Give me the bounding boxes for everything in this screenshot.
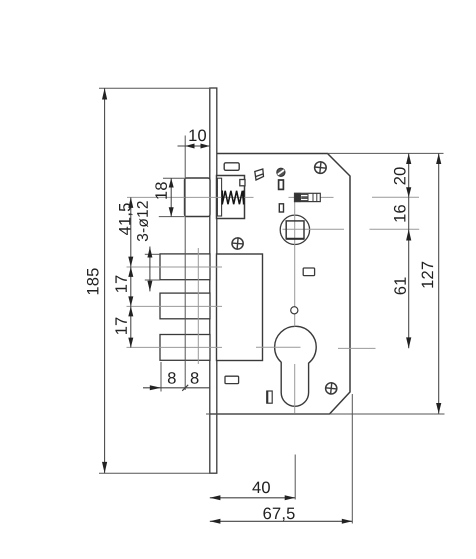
centerline bolt2 (127, 305, 223, 307)
hole slot top (224, 163, 239, 171)
centerline spindle axis (283, 228, 420, 230)
dimension 20-16-61 line (406, 153, 411, 348)
stud rect lower (279, 204, 283, 212)
hole slot mid (303, 268, 314, 276)
dimension 17 upper line (128, 267, 133, 307)
label 8 (168, 372, 176, 384)
extension line hole1 bottom (145, 279, 160, 281)
dimension 18 line (169, 178, 174, 216)
extension line latch face vertical (184, 136, 186, 391)
label 8 (191, 372, 199, 384)
label 17 (115, 318, 126, 334)
extension line top of case (328, 152, 444, 154)
dimension 17 lower line (128, 306, 133, 347)
extension line case right vertical 67.5 (351, 394, 353, 524)
label 20 (394, 167, 406, 184)
spindle hub circle (280, 215, 309, 244)
bolt hole 1 (160, 254, 210, 280)
extension line bottom of faceplate (99, 472, 211, 474)
euro cylinder hole (275, 326, 317, 406)
faceplate (210, 88, 217, 473)
label 40 (252, 482, 270, 494)
label 185 (87, 268, 99, 294)
extension line latch top (163, 177, 184, 179)
bolt hole 2 (160, 293, 210, 319)
dimension 41,5 line (128, 197, 133, 267)
extension line cylinder center vertical 40 (294, 455, 296, 500)
follower pin (295, 193, 321, 201)
label 127 (422, 262, 434, 288)
spindle square (286, 221, 304, 239)
dimension 8-8 line (143, 385, 210, 391)
extension line 8-dim left (160, 362, 162, 392)
stud rect bottom (267, 391, 272, 403)
label 16 (394, 205, 406, 222)
dimension 127 line (436, 153, 441, 413)
centerline latch axis (127, 196, 419, 198)
label 41,5 (119, 203, 133, 235)
spring clip plate (255, 169, 264, 180)
centerline bolts vertical (197, 248, 199, 364)
label 18 (155, 182, 167, 199)
deadbolt housing (217, 254, 263, 361)
spring housing (217, 176, 245, 219)
hole slot bottom-left (225, 376, 239, 383)
dimension 185 line (102, 88, 107, 473)
slot screw head (277, 168, 285, 176)
bolt hole 3 (160, 335, 210, 361)
screw bottom-right (325, 382, 337, 394)
extension line bottom of case (206, 413, 445, 415)
spring housing inner plate (217, 178, 221, 216)
extension line hole1 top (145, 253, 160, 255)
label 67,5 (263, 508, 294, 522)
centerline bolt1 (127, 266, 223, 268)
centerline cylinder vertical (294, 202, 296, 414)
stud rect upper (279, 180, 284, 189)
label 17 (115, 276, 126, 292)
screw mid-left (232, 237, 244, 249)
centerline bolt3 / cylinder axis (127, 347, 376, 348)
label 3-diam12 (137, 201, 148, 241)
dimension 67,5 line (210, 519, 353, 524)
label 10 (189, 130, 206, 142)
fixing hole small circle (291, 307, 298, 314)
screw top-right (314, 161, 327, 174)
label 61 (394, 278, 406, 295)
latch spring (222, 191, 243, 205)
extension line top of faceplate (99, 87, 211, 89)
latch bolt (185, 178, 211, 217)
dimension 40 line (210, 495, 295, 500)
extension line latch bottom (159, 216, 185, 218)
case outline (210, 154, 350, 415)
spring housing notch (240, 180, 245, 186)
dimension 10 line (178, 144, 210, 149)
leader 3-diam-12 (147, 247, 152, 292)
